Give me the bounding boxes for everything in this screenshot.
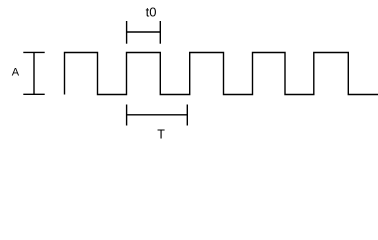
node A label bbox=[12, 67, 20, 79]
svg-text:A: A bbox=[12, 67, 20, 79]
wire t0 dimension bracket bbox=[127, 21, 161, 44]
wire square-wave signal trace bbox=[65, 53, 378, 95]
svg-text:t0: t0 bbox=[146, 5, 157, 20]
node A amplitude marker (I-beam) bbox=[23, 52, 44, 94]
node T label bbox=[157, 128, 165, 142]
node t0 label bbox=[146, 5, 157, 20]
wire T dimension bracket bbox=[127, 105, 188, 126]
svg-text:T: T bbox=[157, 128, 165, 142]
